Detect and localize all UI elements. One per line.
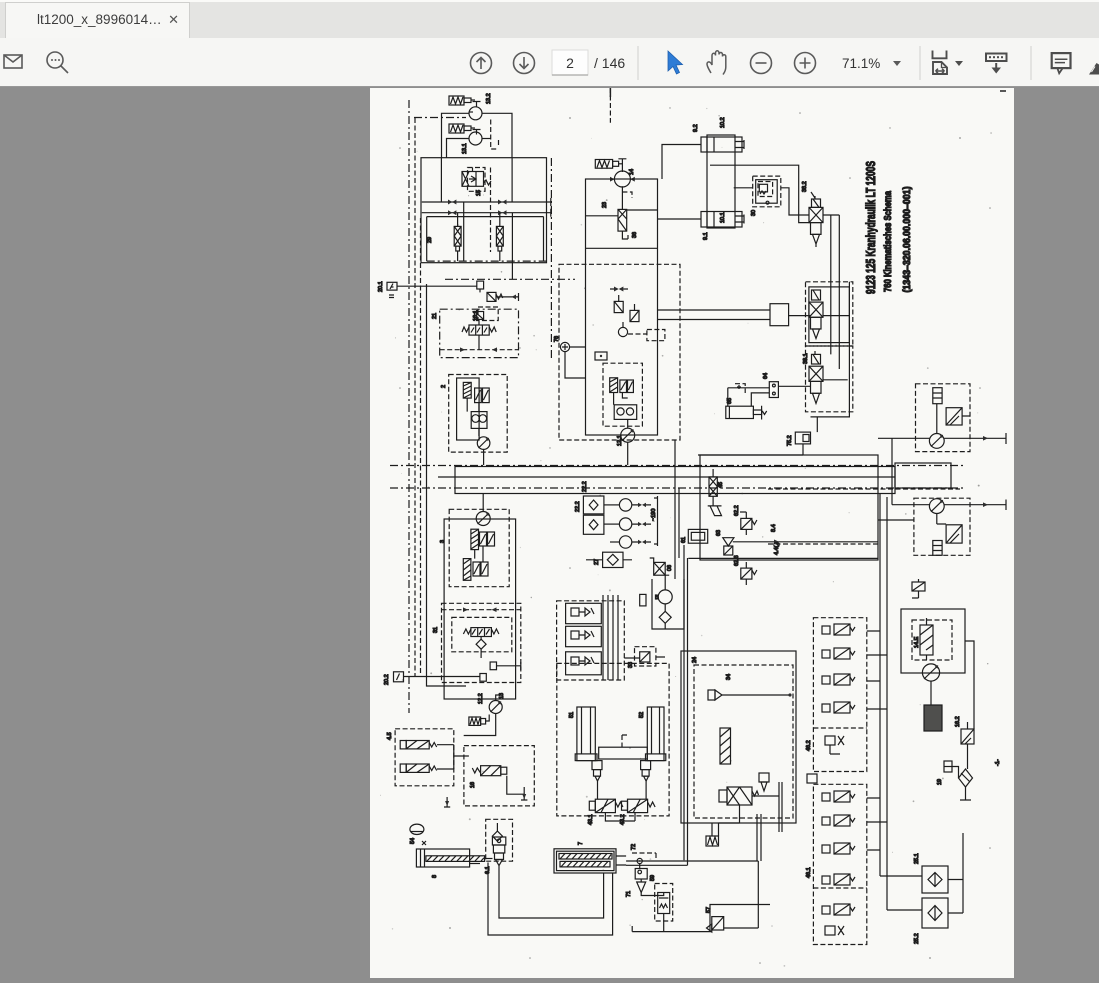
wire P5 top (496, 695, 501, 701)
wire U inner (499, 866, 604, 919)
dashed stub crossbar (622, 735, 628, 747)
svg-text:2: 2 (441, 385, 447, 388)
svg-text:/ 146: / 146 (594, 55, 625, 71)
wire enclosure to B unit (675, 440, 679, 579)
box u (595, 352, 607, 360)
svg-text:4.4(.): 4.4(.) (774, 542, 780, 555)
valve 63 (723, 538, 734, 546)
band dashed right (768, 488, 960, 490)
wire inner vertical b (511, 158, 513, 202)
box 19 (944, 761, 952, 772)
arrowhead left (460, 347, 465, 352)
bowtie on B1 right (498, 200, 507, 205)
node T1 (473, 102, 481, 108)
comment icon (1052, 53, 1071, 73)
manifold divider (813, 727, 866, 729)
dashed box 18.1 (478, 307, 498, 321)
wire cyl7 rods (616, 856, 626, 865)
wire below block dash-dot (445, 278, 575, 280)
node 30 (766, 201, 769, 204)
spool c6b (620, 380, 627, 393)
mid group box (809, 287, 850, 343)
bowtie on B2 right (498, 210, 507, 215)
svg-text:62.3: 62.3 (734, 555, 740, 566)
wire U outer (488, 863, 613, 936)
svg-text:13: 13 (499, 693, 505, 699)
wire 65 elbow to 64 (751, 393, 769, 406)
small box 31c (480, 674, 486, 682)
filter diamond 27.2 (959, 769, 973, 787)
bus line B1 (422, 198, 551, 206)
dashed box lift unit (557, 663, 669, 816)
filter F1 (454, 226, 461, 246)
wire bus to 25.1 (880, 876, 922, 910)
pilot valve 34a (708, 690, 715, 700)
wire inner vertical d (511, 213, 513, 280)
cylinder 8 body (416, 849, 469, 867)
wire P1 dashed drop (491, 120, 499, 150)
check valve 25.2 (922, 898, 948, 928)
svg-text:8: 8 (432, 875, 438, 878)
filter F2 (496, 226, 503, 246)
arrow 44 (774, 540, 779, 545)
wire: left dashed vertical 3 (420, 218, 422, 674)
wire 31 (480, 637, 482, 659)
center block box (586, 179, 658, 435)
pump B (658, 590, 672, 604)
main block box 10 (421, 158, 547, 263)
valve 38.1 body (809, 366, 823, 381)
rod bottom (735, 215, 744, 224)
pilot valve 30 (759, 184, 767, 192)
wire 38.2 right (823, 214, 839, 216)
drain arrow 17 (521, 787, 527, 800)
arrowhead M2 (983, 502, 988, 507)
solenoid valve 43.1 (595, 799, 615, 812)
bowtie on B2 left (448, 210, 456, 215)
dashed hook V26 (622, 192, 632, 198)
cone 10 (813, 329, 820, 339)
spool valve 21a (469, 325, 489, 335)
svg-text:36: 36 (632, 232, 638, 238)
manifold 46.1 row3 (822, 845, 830, 853)
rod top (735, 140, 744, 149)
svg-text:43.2: 43.2 (620, 814, 626, 825)
svg-text:760 Kinematisches Schema: 760 Kinematisches Schema (883, 191, 894, 292)
svg-text:57: 57 (706, 907, 712, 913)
filter 45 (709, 477, 717, 496)
wire F2 (499, 213, 501, 261)
manifold 46.2 bottom (825, 736, 835, 745)
check valve 25.1 (922, 866, 948, 893)
mark X (422, 841, 426, 845)
manifold 46.2 row3 (822, 676, 830, 684)
solenoid coil W4 (595, 160, 612, 169)
filter M2 (933, 541, 942, 556)
bowtie G2 (638, 522, 646, 526)
wire unit3 (475, 546, 483, 562)
svg-text:24: 24 (692, 657, 698, 663)
spool c6c (628, 380, 634, 393)
corner box bottom-right (710, 905, 770, 932)
wire from Q box to 75.2 (698, 444, 803, 455)
svg-text:21: 21 (432, 313, 438, 319)
block 34 dashed (694, 665, 793, 818)
vertical pair long (626, 545, 688, 865)
scanned schematic page (370, 88, 1014, 978)
manifold 46.2 dashed box (813, 618, 866, 772)
wire 31b (497, 662, 521, 670)
valve 38.2 attach (812, 199, 821, 207)
wire 21a vertical (478, 319, 480, 349)
svg-text:64: 64 (763, 373, 769, 379)
bus pair right (880, 493, 887, 910)
check diamond 31 (476, 639, 486, 649)
motor M2 dashed box (914, 498, 970, 555)
arrowhead 31 l (463, 607, 468, 612)
wire pair to right block (658, 310, 771, 320)
svg-text:10.1: 10.1 (720, 212, 726, 223)
scan speckles (399, 107, 991, 964)
svg-text:38.1: 38.1 (803, 353, 809, 364)
bowtie G1 (638, 503, 646, 507)
spring XII (484, 180, 492, 185)
brake 14E dashed (912, 620, 952, 660)
svg-text:34: 34 (726, 674, 732, 680)
search icon (47, 52, 63, 68)
arrowhead S2 wire (512, 295, 517, 300)
wire right verticals (831, 215, 840, 369)
wire stub to valve 10 (789, 315, 850, 317)
dashed box pump-unit 3 (449, 509, 509, 586)
cylinder 7 rod hatched a (559, 854, 612, 860)
wire P2 left (447, 139, 470, 158)
wire long 470 (688, 557, 878, 559)
wire 76 (565, 347, 586, 378)
wire M1-M2 vertical (891, 438, 893, 504)
spring 21a right (489, 327, 496, 332)
manifold 46.1 row1 (822, 793, 830, 801)
spool valve 31a (471, 628, 492, 637)
wires manifold to bus (867, 631, 887, 850)
node 72 (637, 858, 642, 863)
valve c3 (630, 310, 639, 321)
valve S2 with spring (487, 292, 496, 301)
svg-text:62.2: 62.2 (734, 505, 740, 516)
manifold 46.1 dashed box (813, 784, 866, 944)
svg-text:3: 3 (440, 540, 446, 543)
wire V26 (622, 186, 628, 239)
wire 4.5 right (437, 745, 469, 769)
manifold 46.2 row2 (822, 650, 830, 658)
wire: left dash-dot margin line (408, 100, 410, 713)
svg-text:16.2: 16.2 (955, 716, 961, 727)
wire inner vertical a (440, 158, 442, 202)
pump PE (922, 664, 939, 681)
valve 6 dashed box (486, 819, 513, 861)
wire 63 right (733, 541, 878, 543)
svg-text:22.2: 22.2 (575, 501, 581, 512)
valve under 52 (641, 761, 651, 770)
cylinder 51 (577, 707, 595, 761)
svg-text:23: 23 (602, 202, 608, 208)
wire: left dashed vertical 2 (414, 118, 416, 676)
valve 70 dashed box (655, 884, 673, 922)
center dashed drop line (609, 88, 611, 123)
wire 6.2 up (496, 823, 498, 831)
wire cyl left top (662, 145, 701, 180)
wire 33 (624, 657, 665, 658)
wire inner vertical c (463, 202, 465, 261)
bowtie G3 (638, 540, 646, 544)
gauge G1 (619, 499, 631, 511)
cylinder 7 body (554, 849, 616, 873)
cone 6.1 (496, 860, 503, 866)
lower group dashed (806, 346, 853, 412)
valve 70 body (658, 893, 670, 914)
manifold 30 sub valve a (566, 603, 602, 623)
svg-text:30: 30 (751, 210, 757, 216)
dashed line mid (768, 543, 878, 545)
cylinder 65 rod (753, 410, 761, 415)
valve 62.2 (741, 518, 752, 529)
spring 16 (472, 768, 480, 773)
wire checks right (948, 833, 963, 913)
valve 10 attach (812, 290, 821, 300)
wire P3 down (483, 449, 485, 465)
svg-text:52: 52 (639, 712, 645, 718)
valve M1 (946, 408, 962, 425)
svg-text:8.4: 8.4 (771, 524, 777, 532)
wire M1 (937, 404, 970, 434)
solenoid coil W3 (469, 717, 481, 725)
svg-text:20.2: 20.2 (384, 674, 390, 685)
hand tool (707, 51, 726, 75)
svg-text:38.2: 38.2 (802, 181, 808, 192)
valve under 51 (592, 761, 602, 770)
manifold 46.2 row4 (822, 704, 830, 712)
scan noise speckles extra (380, 108, 992, 967)
bus line B2 (422, 209, 551, 217)
node T2 (473, 130, 481, 135)
dash-dot box 21 (440, 309, 519, 357)
svg-text:7: 7 (578, 842, 584, 845)
svg-text:63: 63 (716, 530, 722, 536)
cone 38.1 (813, 393, 820, 403)
page up (471, 53, 492, 74)
plus circle (795, 53, 816, 74)
bottom wire to 57 (632, 926, 712, 932)
gauge 76 (560, 342, 569, 351)
spool unit3 c (488, 532, 495, 546)
separator (1030, 46, 1032, 80)
solenoid coil W1 (449, 96, 464, 105)
box 40 (807, 774, 817, 783)
envelope icon (4, 55, 22, 68)
pump P6 (614, 171, 630, 187)
manifold 30 sub valve c (566, 652, 602, 675)
bowtie valve c1 (614, 287, 623, 292)
svg-text:46.1: 46.1 (806, 867, 812, 878)
valve 10 body (809, 302, 823, 317)
motor pair c6 (614, 405, 637, 420)
svg-text:~190: ~190 (651, 509, 657, 521)
gauge G3 (619, 536, 631, 548)
left stub rect (770, 304, 789, 326)
wire unit 30 right (781, 188, 809, 215)
svg-text:19: 19 (937, 779, 943, 785)
select cursor (blue) (668, 51, 683, 74)
inner box 29 (427, 217, 544, 262)
check box 22.2b (583, 515, 604, 534)
svg-text:B: B (655, 595, 659, 601)
dashed box valve-31 (442, 603, 521, 682)
minus circle (751, 53, 772, 74)
spool unit2 c (483, 388, 490, 403)
valve c2 (614, 301, 623, 312)
gauge G2 (619, 518, 631, 530)
crane cylinder 9 body (707, 135, 735, 228)
wire P4 up (482, 493, 484, 512)
dashed box 4.5 (395, 729, 454, 786)
arrowhead right (492, 347, 497, 352)
wire 70 down (663, 914, 665, 932)
band rectangle (455, 467, 895, 494)
svg-text:12.2: 12.2 (478, 693, 484, 704)
check diamond 6.2 (492, 831, 502, 841)
wire S2 right (496, 293, 519, 301)
dashed box pump-unit 2 (449, 375, 508, 453)
band right box (895, 463, 951, 488)
spring 31a right (491, 629, 499, 634)
valve 62.3 (741, 568, 752, 579)
svg-text:25.1: 25.1 (914, 853, 920, 864)
svg-text:25.2: 25.2 (914, 933, 920, 944)
svg-text:15: 15 (476, 190, 482, 196)
dashed bracket 55 (735, 384, 745, 393)
svg-text:45: 45 (718, 482, 724, 488)
crane cylinder cap bottom (701, 212, 742, 228)
wire unit2 (467, 398, 479, 436)
separator (919, 46, 921, 80)
wire from 20.1 (397, 285, 477, 287)
relief valve 45b (708, 496, 722, 515)
motor M2 (929, 499, 944, 514)
wire right dash-dot margin (550, 158, 552, 358)
cone valve 34c (759, 773, 769, 782)
valve 38.2 lower (811, 223, 822, 235)
valve 38.1 attach (812, 354, 821, 364)
wire 57 right (724, 861, 759, 928)
brake block 14E box (901, 609, 965, 673)
tab bar (0, 0, 1099, 38)
wire 43 bottoms (605, 813, 635, 821)
valve XII dashed enclosure (468, 168, 486, 192)
box 64 (769, 382, 778, 398)
box 20.1 (387, 282, 397, 290)
page top-right tick (1000, 90, 1006, 92)
band inner line (438, 476, 895, 478)
arrowhead 31 r (492, 607, 497, 612)
wire 14E right (965, 641, 974, 729)
separator (637, 46, 639, 80)
svg-text:51: 51 (569, 712, 575, 718)
manifold bus lines (603, 595, 618, 680)
hatched spool unit3 lower (463, 559, 471, 581)
wire M2 (937, 514, 946, 525)
motor pair unit2 (471, 412, 487, 429)
manifold divider2 (813, 887, 866, 889)
wire cyl left bottom (658, 218, 702, 220)
cylinder 7 rod hatched b (560, 861, 610, 867)
dashed unit c6 (603, 363, 642, 426)
cone 38.2 (813, 234, 820, 247)
manifold 30 sub valve b (566, 626, 602, 646)
spool unit3 e (481, 562, 488, 576)
svg-text:16: 16 (470, 782, 476, 788)
pilot unit 30 inner dashed (758, 182, 773, 197)
manifold 46.2 row1 (822, 626, 830, 634)
breather oval 54 (410, 824, 424, 834)
svg-text:14.E: 14.E (914, 636, 920, 648)
wire W3 to P5 (486, 715, 490, 722)
marks below 20.1 (389, 295, 394, 298)
cylinder 65 stop bar (762, 406, 767, 420)
node T3 (618, 159, 626, 172)
filter M1 (933, 388, 942, 404)
pump P2 (469, 132, 482, 145)
solenoid coil W2 (449, 124, 464, 133)
svg-text:(1343–320.06.00.000–001): (1343–320.06.00.000–001) (902, 187, 913, 293)
motor M1 (929, 434, 944, 449)
dashed inner box 31 (452, 617, 512, 651)
svg-text:13.2: 13.2 (486, 93, 492, 104)
outer box right edge (811, 282, 850, 417)
cylinder 8 rod line b (470, 863, 480, 865)
gauge c4 (618, 327, 627, 336)
pressure block Q (700, 455, 878, 560)
arrowhead M1 (983, 436, 988, 441)
cone 71 (637, 879, 646, 893)
valve 10 lower (811, 317, 822, 329)
wire P2 right (482, 138, 491, 140)
pump P5 (489, 701, 502, 714)
solenoid valve 16 (481, 766, 501, 776)
page down (514, 53, 535, 74)
box 61 (688, 529, 707, 543)
svg-text:59: 59 (650, 875, 656, 881)
svg-text:29: 29 (427, 237, 433, 243)
check box 22.2a (583, 496, 604, 514)
pilot unit 30 box (756, 180, 778, 204)
svg-text:71.1%: 71.1% (842, 56, 880, 71)
wire 71 to 70 (641, 893, 664, 896)
valve 06 (654, 562, 666, 575)
wire P7 down (627, 442, 629, 465)
manifold 46.1 bottom (825, 926, 835, 935)
svg-text:9.2: 9.2 (693, 124, 699, 132)
arrow line 21 (440, 349, 519, 351)
valve b2 (640, 594, 646, 606)
top page tick (609, 88, 611, 97)
band dash-dot lower (390, 487, 965, 489)
spool 14E (920, 625, 933, 655)
manifold 30 dashed box (557, 601, 625, 680)
wire PE tank (930, 681, 932, 705)
dashed stub 72 (632, 853, 656, 861)
svg-text:71: 71 (626, 891, 632, 897)
arrow line 31 (442, 609, 521, 611)
